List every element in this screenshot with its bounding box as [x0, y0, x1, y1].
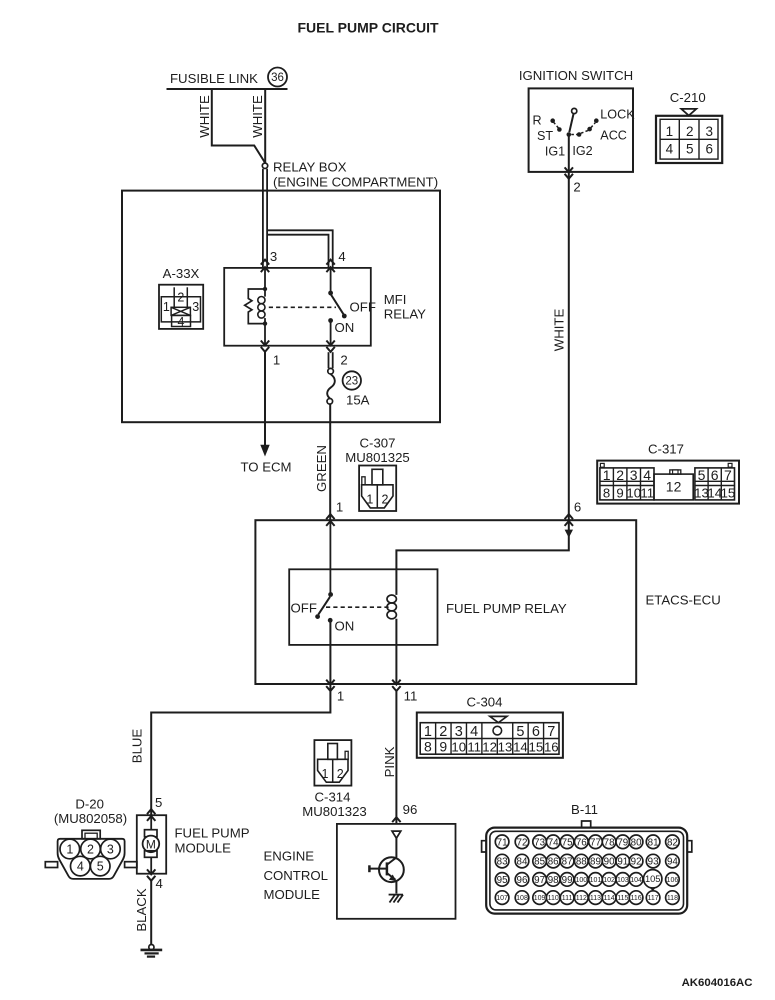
svg-text:M: M — [146, 837, 156, 851]
svg-text:75: 75 — [562, 837, 573, 848]
svg-text:3: 3 — [455, 724, 463, 740]
svg-text:81: 81 — [648, 837, 659, 848]
svg-text:12: 12 — [482, 739, 497, 754]
svg-text:107: 107 — [496, 895, 508, 902]
svg-text:(ENGINE COMPARTMENT): (ENGINE COMPARTMENT) — [273, 175, 438, 190]
svg-text:11: 11 — [404, 689, 418, 704]
svg-text:TO ECM: TO ECM — [240, 460, 291, 475]
svg-text:115: 115 — [617, 895, 628, 902]
svg-text:AK604016AC: AK604016AC — [682, 977, 753, 989]
svg-text:A-33X: A-33X — [163, 266, 200, 281]
svg-text:109: 109 — [534, 895, 546, 902]
svg-text:LOCK: LOCK — [600, 107, 635, 121]
svg-text:10: 10 — [626, 486, 641, 501]
svg-text:4: 4 — [666, 142, 674, 157]
svg-text:MU801325: MU801325 — [345, 450, 410, 465]
svg-text:BLUE: BLUE — [130, 729, 145, 764]
svg-text:3: 3 — [192, 300, 199, 314]
svg-text:96: 96 — [403, 802, 418, 817]
svg-text:4: 4 — [643, 467, 651, 483]
svg-text:80: 80 — [631, 837, 642, 848]
svg-text:PINK: PINK — [382, 746, 397, 777]
svg-text:116: 116 — [631, 895, 642, 902]
svg-text:(MU802058): (MU802058) — [54, 811, 127, 826]
svg-text:1: 1 — [366, 493, 373, 507]
svg-text:WHITE: WHITE — [197, 95, 212, 138]
svg-text:90: 90 — [604, 857, 615, 868]
svg-text:108: 108 — [516, 895, 528, 902]
svg-text:6: 6 — [711, 467, 719, 483]
svg-text:5: 5 — [698, 467, 706, 483]
svg-text:93: 93 — [648, 857, 659, 868]
svg-text:ST: ST — [537, 129, 553, 143]
svg-text:11: 11 — [467, 739, 481, 754]
svg-text:12: 12 — [666, 479, 682, 495]
svg-text:ON: ON — [335, 320, 355, 335]
svg-text:114: 114 — [604, 895, 615, 902]
svg-text:RELAY: RELAY — [384, 307, 426, 322]
svg-text:10: 10 — [451, 739, 466, 754]
svg-text:ACC: ACC — [600, 128, 627, 142]
svg-text:94: 94 — [667, 857, 678, 868]
svg-text:IG2: IG2 — [572, 144, 592, 158]
svg-text:14: 14 — [513, 739, 528, 754]
svg-text:B-11: B-11 — [571, 802, 598, 817]
svg-text:ETACS-ECU: ETACS-ECU — [646, 593, 721, 608]
svg-text:92: 92 — [631, 857, 642, 868]
svg-text:MFI: MFI — [384, 292, 407, 307]
svg-text:MODULE: MODULE — [175, 841, 232, 856]
svg-text:100: 100 — [575, 877, 587, 884]
svg-text:4: 4 — [178, 315, 185, 329]
svg-text:IGNITION SWITCH: IGNITION SWITCH — [519, 68, 633, 83]
svg-text:WHITE: WHITE — [250, 95, 265, 138]
svg-text:117: 117 — [648, 895, 659, 902]
svg-text:96: 96 — [517, 875, 528, 886]
svg-text:73: 73 — [534, 837, 545, 848]
svg-text:23: 23 — [345, 376, 358, 388]
svg-text:1: 1 — [163, 300, 170, 314]
svg-text:76: 76 — [576, 837, 587, 848]
svg-text:1: 1 — [337, 689, 344, 704]
svg-text:8: 8 — [603, 486, 610, 501]
svg-text:102: 102 — [603, 877, 615, 884]
svg-text:C-304: C-304 — [467, 695, 503, 710]
svg-text:FUSIBLE LINK: FUSIBLE LINK — [170, 71, 258, 86]
svg-text:6: 6 — [574, 500, 581, 515]
svg-text:5: 5 — [516, 724, 524, 740]
svg-text:FUEL PUMP RELAY: FUEL PUMP RELAY — [446, 601, 567, 616]
svg-text:111: 111 — [562, 895, 573, 902]
svg-text:2: 2 — [616, 467, 624, 483]
svg-text:7: 7 — [547, 724, 555, 740]
svg-text:2: 2 — [340, 353, 347, 368]
svg-text:CONTROL: CONTROL — [264, 868, 328, 883]
svg-text:112: 112 — [576, 895, 587, 902]
svg-text:9: 9 — [439, 738, 447, 754]
svg-text:RELAY BOX: RELAY BOX — [273, 160, 347, 175]
svg-text:74: 74 — [548, 837, 559, 848]
svg-text:C-307: C-307 — [360, 436, 396, 451]
svg-text:9: 9 — [616, 486, 623, 501]
svg-text:4: 4 — [470, 724, 478, 740]
svg-text:87: 87 — [562, 857, 573, 868]
svg-text:118: 118 — [667, 895, 678, 902]
svg-text:MODULE: MODULE — [264, 887, 321, 902]
svg-text:82: 82 — [667, 837, 678, 848]
svg-text:105: 105 — [645, 874, 661, 884]
svg-text:15: 15 — [721, 486, 736, 501]
svg-text:2: 2 — [177, 291, 184, 305]
svg-text:103: 103 — [617, 877, 629, 884]
svg-text:ENGINE: ENGINE — [264, 849, 315, 864]
svg-text:1: 1 — [666, 124, 674, 139]
svg-text:5: 5 — [97, 860, 104, 874]
svg-text:36: 36 — [271, 72, 284, 84]
svg-text:77: 77 — [590, 837, 601, 848]
svg-text:3: 3 — [270, 249, 277, 264]
svg-text:7: 7 — [724, 467, 732, 483]
svg-text:6: 6 — [532, 724, 540, 740]
svg-text:78: 78 — [604, 837, 615, 848]
svg-text:110: 110 — [548, 895, 559, 902]
svg-text:4: 4 — [156, 876, 163, 891]
svg-text:WHITE: WHITE — [552, 309, 567, 352]
svg-text:ON: ON — [335, 619, 355, 634]
svg-text:IG1: IG1 — [545, 144, 565, 158]
svg-text:R: R — [532, 113, 541, 127]
svg-text:1: 1 — [603, 467, 611, 483]
svg-text:8: 8 — [424, 738, 432, 754]
svg-text:2: 2 — [573, 180, 580, 195]
svg-text:OFF: OFF — [291, 601, 317, 616]
svg-text:FUEL PUMP CIRCUIT: FUEL PUMP CIRCUIT — [297, 20, 438, 36]
svg-text:FUEL PUMP: FUEL PUMP — [175, 826, 250, 841]
svg-text:C-314: C-314 — [315, 790, 351, 805]
svg-text:2: 2 — [337, 767, 344, 781]
svg-text:106: 106 — [667, 877, 679, 884]
svg-text:5: 5 — [155, 795, 162, 810]
svg-text:95: 95 — [497, 875, 508, 886]
svg-text:1: 1 — [273, 353, 280, 368]
svg-text:D-20: D-20 — [75, 796, 104, 811]
svg-text:1: 1 — [322, 767, 329, 781]
svg-text:BLACK: BLACK — [134, 888, 149, 931]
svg-text:6: 6 — [705, 142, 713, 157]
svg-text:3: 3 — [705, 124, 713, 139]
svg-text:104: 104 — [630, 877, 642, 884]
svg-text:3: 3 — [630, 467, 638, 483]
svg-text:71: 71 — [497, 837, 508, 848]
svg-text:84: 84 — [517, 857, 528, 868]
svg-text:72: 72 — [517, 837, 528, 848]
svg-text:113: 113 — [590, 895, 601, 902]
svg-text:2: 2 — [686, 124, 694, 139]
svg-text:3: 3 — [107, 843, 114, 857]
svg-text:16: 16 — [544, 739, 559, 754]
svg-text:88: 88 — [576, 857, 587, 868]
svg-text:86: 86 — [548, 857, 559, 868]
svg-text:91: 91 — [617, 857, 628, 868]
svg-text:2: 2 — [87, 843, 94, 857]
svg-text:4: 4 — [338, 249, 345, 264]
svg-text:15A: 15A — [346, 393, 370, 408]
svg-text:101: 101 — [590, 877, 602, 884]
svg-text:MU801323: MU801323 — [302, 804, 367, 819]
svg-text:1: 1 — [66, 843, 73, 857]
svg-text:98: 98 — [548, 875, 559, 886]
svg-text:89: 89 — [590, 857, 601, 868]
svg-text:15: 15 — [529, 739, 544, 754]
svg-text:97: 97 — [534, 875, 545, 886]
svg-text:GREEN: GREEN — [314, 445, 329, 492]
svg-text:1: 1 — [336, 500, 343, 515]
svg-text:79: 79 — [617, 837, 628, 848]
svg-text:C-210: C-210 — [670, 90, 706, 105]
svg-text:83: 83 — [497, 857, 508, 868]
svg-text:OFF: OFF — [350, 300, 376, 315]
svg-text:4: 4 — [77, 860, 84, 874]
svg-text:99: 99 — [562, 875, 573, 886]
svg-text:13: 13 — [498, 739, 513, 754]
svg-text:C-317: C-317 — [648, 442, 684, 457]
svg-text:85: 85 — [534, 857, 545, 868]
svg-text:2: 2 — [382, 493, 389, 507]
svg-text:11: 11 — [640, 486, 654, 501]
svg-text:5: 5 — [686, 142, 694, 157]
